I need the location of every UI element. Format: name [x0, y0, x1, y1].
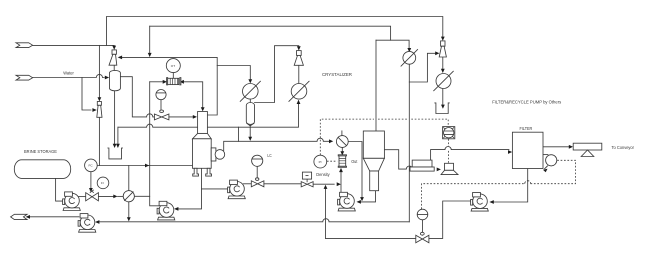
svg-text:FILTER: FILTER: [520, 126, 533, 131]
svg-text:To Conveyor: To Conveyor: [612, 145, 635, 150]
svg-text:OT: OT: [171, 64, 175, 68]
svg-text:LC: LC: [267, 153, 272, 158]
svg-text:CRYSTALIZER: CRYSTALIZER: [322, 72, 353, 77]
svg-text:PI: PI: [319, 160, 322, 164]
svg-text:Density: Density: [316, 172, 330, 177]
svg-text:FI: FI: [101, 181, 104, 185]
svg-text:BRINE STORAGE: BRINE STORAGE: [24, 149, 57, 154]
svg-text:Out: Out: [351, 159, 358, 164]
svg-text:FILTER&RECYCLE PUMP by Others: FILTER&RECYCLE PUMP by Others: [492, 99, 562, 104]
svg-text:Water: Water: [63, 71, 74, 76]
